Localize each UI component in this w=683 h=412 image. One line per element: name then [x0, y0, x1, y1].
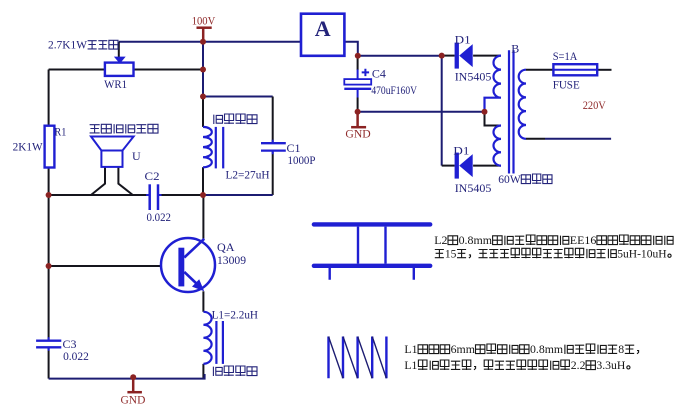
capacitor C3 stubs [48, 337, 50, 351]
diode D1 bottom triangle [459, 154, 473, 177]
wire top rail from wiper to ammeter [119, 41, 301, 43]
node base junction [46, 263, 52, 269]
svg-text:L1: L1 [404, 342, 417, 356]
svg-text:D1: D1 [453, 144, 469, 158]
wire centre-tap feed [358, 111, 485, 113]
wire secondary bottom navy part [545, 138, 611, 140]
wire C2 left [49, 194, 150, 196]
inductor L2 core lines [215, 127, 217, 168]
svg-text:0.022: 0.022 [63, 349, 89, 363]
wire right rail navy top [202, 42, 204, 97]
wire bottom rail [49, 374, 205, 379]
diode D1 bottom bar [455, 153, 459, 179]
potentiometer WR1 arrow [114, 57, 126, 64]
power symbol 100V bar [197, 26, 212, 29]
wire lower D1 to primary bottom [473, 165, 501, 167]
svg-text:IN5405: IN5405 [455, 70, 492, 84]
transistor QA collector stroke [184, 239, 204, 258]
svg-text:R1: R1 [54, 125, 66, 139]
transistor QA circle [161, 238, 215, 292]
wire base feed [49, 265, 179, 267]
wire D1 anode stub [442, 55, 455, 57]
wire transducer right lead [118, 167, 132, 195]
resistor R1 body [45, 126, 55, 168]
transistor QA emitter arrow [192, 279, 204, 291]
svg-text:B: B [511, 42, 519, 56]
node left rail C2 junction [46, 192, 52, 198]
svg-text:2.7K1W: 2.7K1W [48, 38, 88, 52]
ground symbol at C4 [356, 112, 359, 127]
wire C4 top stem [357, 56, 359, 70]
svg-text:C4: C4 [372, 67, 386, 81]
wire secondary bottom black part [526, 138, 545, 140]
transformer B primary lower winding [493, 126, 501, 166]
svg-text:8: 8 [618, 342, 624, 356]
wire C2 right [158, 194, 203, 196]
capacitor C2 plates [148, 184, 151, 210]
svg-text:0.8mm: 0.8mm [530, 342, 564, 356]
capacitor C4 plus sign [362, 69, 369, 76]
potentiometer WR1 body [105, 63, 134, 76]
transducer U body [101, 151, 122, 167]
inductor L1 core lines [215, 321, 217, 364]
EE16 bobbin drawing legs [330, 268, 414, 280]
EE16 bobbin drawing centre posts [358, 227, 386, 264]
node wiper rail junction [200, 67, 206, 73]
svg-text:470uF160V: 470uF160V [371, 83, 417, 97]
svg-text:0.022: 0.022 [147, 210, 172, 224]
wire wiper drop [118, 42, 120, 57]
svg-text:QA: QA [217, 240, 235, 254]
EE16 bobbin drawing top bar [314, 222, 430, 226]
wire diode branch vertical [441, 56, 443, 166]
transformer B core lines [509, 50, 514, 173]
ammeter A box [301, 14, 344, 56]
wire fuse output [597, 69, 611, 71]
svg-text:6mm: 6mm [451, 342, 476, 356]
node C4 top junction [355, 53, 361, 59]
svg-text:GND: GND [121, 393, 146, 407]
transformer B primary upper winding [485, 56, 502, 112]
svg-text:L2: L2 [434, 233, 447, 247]
inductor L2 coil [203, 127, 212, 167]
diode D1 top triangle [459, 44, 473, 67]
svg-text:A: A [315, 16, 331, 41]
svg-text:5uH-10uH: 5uH-10uH [617, 246, 667, 260]
node 100V junction [200, 39, 206, 45]
node diode branch junction [439, 53, 445, 59]
svg-text:3.3uH: 3.3uH [596, 358, 625, 372]
svg-text:S=1A: S=1A [553, 49, 578, 63]
svg-text:100V: 100V [192, 14, 216, 28]
wire potentiometer left lead [49, 69, 105, 71]
svg-text:D1: D1 [455, 33, 471, 47]
EE16 bobbin drawing bottom bar [314, 264, 430, 268]
svg-text:C2: C2 [145, 169, 160, 183]
capacitor C3 plates [36, 340, 61, 342]
capacitor C4 bottom plate [344, 88, 371, 90]
svg-text:FUSE: FUSE [553, 78, 580, 92]
node ground junction [130, 374, 136, 380]
wire right rail above L2 [202, 97, 204, 127]
node centre-tap junction [482, 109, 488, 115]
capacitor C2 stubs [146, 194, 161, 196]
inductor L1 coil [203, 312, 211, 364]
capacitor C1 stubs [272, 140, 274, 155]
wire ammeter to C4 top corner [344, 42, 357, 56]
capacitor C1 plates [261, 142, 286, 144]
svg-text:13009: 13009 [217, 253, 246, 267]
node tank top junction [200, 94, 206, 100]
wire tank loop top [203, 96, 273, 98]
fuse inner line [553, 69, 597, 71]
svg-text:220V: 220V [583, 98, 606, 112]
wire D1 to primary top [473, 55, 501, 57]
wire tank loop right upper [272, 97, 274, 144]
svg-text:0.8mm: 0.8mm [459, 233, 493, 247]
node C4 bottom junction [355, 109, 361, 115]
wire right rail below L2 [202, 167, 204, 195]
wire tank loop bottom [203, 194, 273, 196]
L1 zigzag winding drawing verticals [329, 337, 387, 379]
svg-text:EE16: EE16 [570, 233, 597, 247]
svg-text:L1: L1 [404, 358, 417, 372]
svg-text:U: U [132, 149, 141, 163]
svg-text:GND: GND [345, 127, 371, 141]
wire collector rail [202, 195, 204, 239]
transistor QA base bar [178, 248, 184, 287]
wire tank loop right lower [272, 151, 274, 195]
L1 zigzag winding drawing diagonals [329, 337, 387, 379]
wire C4 bottom stem [357, 89, 359, 98]
node tank bottom junction [200, 192, 206, 198]
wire centre-tap lower jog [485, 112, 502, 126]
svg-text:WR1: WR1 [104, 77, 127, 91]
wire emitter down to L1 [202, 291, 204, 312]
wire below L1 [202, 364, 204, 379]
svg-text:15: 15 [445, 246, 457, 260]
transistor QA emitter stroke [184, 272, 197, 285]
svg-text:IN5405: IN5405 [455, 181, 492, 195]
capacitor C4 top plate [344, 79, 371, 85]
inductor L2 label air-core coil [214, 114, 257, 124]
fuse S=1A body [553, 64, 597, 75]
svg-text:1000P: 1000P [288, 153, 316, 167]
transducer U horn [91, 137, 134, 151]
diode D1 top bar [455, 43, 459, 69]
wire C4 top feed to D1 [358, 55, 442, 57]
inductor L1 label air-core coil [213, 366, 257, 376]
wire left rail upper [48, 70, 50, 341]
ground symbol bottom [132, 377, 135, 391]
transformer B secondary winding [519, 70, 526, 139]
svg-text:2.2: 2.2 [571, 358, 586, 372]
wire secondary top to fuse [526, 69, 553, 71]
svg-text:L2=27uH: L2=27uH [226, 168, 270, 182]
wire lower D1 stub [442, 165, 455, 167]
wire transducer left lead [91, 167, 105, 195]
svg-text:60W: 60W [498, 172, 521, 186]
svg-text:2K1W: 2K1W [13, 140, 44, 154]
wire potentiometer right lead [134, 69, 204, 71]
svg-text:L1=2.2uH: L1=2.2uH [212, 308, 259, 322]
transducer label [90, 124, 158, 133]
wire left rail lower [48, 347, 50, 378]
